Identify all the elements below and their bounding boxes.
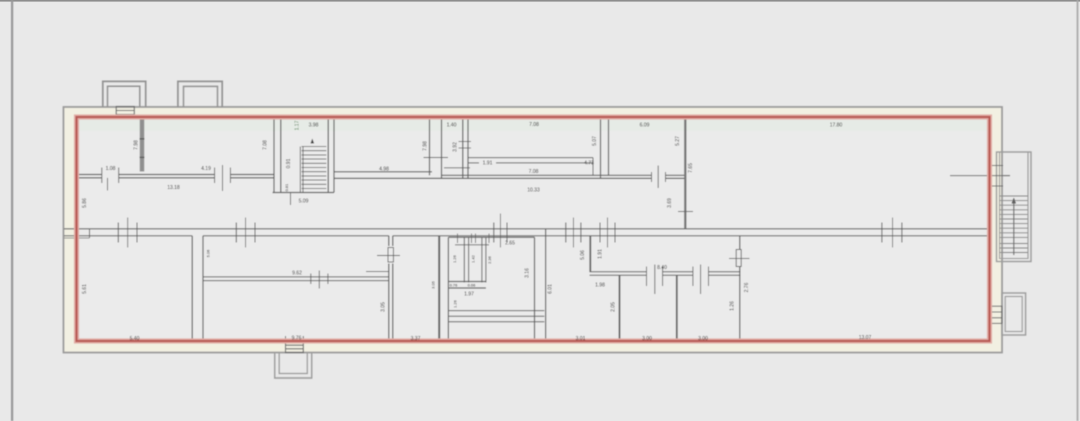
window symbol W5 — [600, 218, 615, 248]
left screen edge line — [11, 0, 13, 421]
stair stringer double line — [300, 147, 303, 193]
door ticks mid south wall — [652, 166, 666, 189]
right external stair up arrow — [1012, 198, 1016, 256]
dimension labels horizontal — [106, 122, 872, 342]
svg-text:7.08: 7.08 — [263, 140, 269, 150]
door 2 ticks on y272 wall — [693, 265, 709, 295]
wall x740 with door gap — [739, 236, 741, 341]
stair door tick below landing — [290, 193, 292, 206]
room 4.98 south line — [334, 171, 432, 173]
small ticks on 462/468 pair top — [459, 142, 472, 149]
svg-text:3.37: 3.37 — [411, 336, 421, 342]
svg-text:3.05: 3.05 — [381, 302, 387, 312]
stair shaft right wall pair — [327, 117, 329, 193]
wall pair x462/468 — [462, 117, 464, 178]
svg-text:0.76: 0.76 — [450, 283, 459, 288]
wall pair x192/203 — [191, 236, 193, 341]
wall horizontal y275 lower — [590, 274, 741, 276]
svg-text:4.19: 4.19 — [201, 166, 211, 172]
door swing tick x740 — [729, 257, 750, 259]
svg-text:7.65: 7.65 — [688, 163, 694, 173]
svg-text:1.26: 1.26 — [730, 301, 736, 311]
svg-text:1.97: 1.97 — [464, 291, 474, 297]
door ticks left block openings — [102, 165, 231, 191]
wall x590 T-stem — [589, 236, 591, 272]
svg-text:9.76: 9.76 — [292, 336, 302, 342]
red overlay halo — [77, 117, 990, 341]
wall pair x600/608 — [600, 117, 602, 178]
right porch outer square — [1002, 293, 1026, 335]
wall x439 — [438, 236, 440, 341]
svg-text:8.40: 8.40 — [657, 265, 667, 271]
top protrusion 1 outer — [103, 81, 146, 107]
svg-text:6.09: 6.09 — [640, 123, 650, 129]
svg-text:2.05: 2.05 — [611, 302, 617, 312]
wall left block south upper line — [77, 174, 274, 176]
svg-text:6.01: 6.01 — [548, 284, 554, 294]
right external stair inner outline — [1000, 152, 1029, 259]
svg-text:5.09: 5.09 — [299, 199, 309, 205]
outer wall outline — [64, 107, 1003, 353]
interior walls — [77, 117, 693, 229]
svg-text:7.98: 7.98 — [423, 141, 429, 151]
top protrusion 2 outer — [178, 81, 222, 107]
svg-text:1.26: 1.26 — [452, 254, 457, 263]
svg-text:3.05: 3.05 — [431, 280, 436, 289]
svg-text:1.08: 1.08 — [106, 166, 116, 172]
window symbol W4 — [566, 218, 581, 248]
mid south wall upper line — [442, 174, 686, 176]
wall x677 — [676, 275, 678, 341]
small marks on room1 divider wall — [140, 138, 145, 140]
wall horizontal y272 upper — [590, 271, 741, 273]
bottom porch U outline outer — [275, 353, 312, 379]
bathroom partition pair 2 — [481, 237, 483, 282]
mid south wall lower line — [334, 177, 686, 179]
corridor north wall line — [64, 228, 990, 230]
svg-text:2.36: 2.36 — [487, 255, 492, 264]
counter lower line — [496, 162, 593, 164]
door tick across 462/468 — [444, 167, 470, 169]
svg-text:1.91: 1.91 — [483, 160, 493, 166]
svg-text:0.91: 0.91 — [286, 158, 292, 168]
wall horizontal y280 lower — [203, 280, 389, 282]
stairs treads interior — [302, 147, 327, 189]
wall pair x389/393 with door gap — [388, 236, 390, 341]
svg-text:5.07: 5.07 — [592, 136, 598, 146]
door lintel segment near wall 389 — [366, 271, 389, 273]
bathroom door ticks top — [455, 234, 489, 245]
mint tint band under top red line — [78, 120, 988, 132]
red overlay rectangle — [77, 117, 990, 341]
svg-text:5.40: 5.40 — [130, 336, 140, 342]
svg-text:3.01: 3.01 — [576, 336, 586, 342]
top protrusion 1 inner — [108, 86, 140, 107]
dimension labels vertical — [82, 120, 750, 311]
svg-text:5.27: 5.27 — [675, 136, 681, 146]
svg-text:7.98: 7.98 — [134, 140, 140, 150]
bathroom block right — [534, 237, 536, 341]
bathroom south band lines — [448, 281, 486, 283]
long wall x685 — [684, 117, 686, 229]
stair up arrow mark — [311, 139, 315, 144]
svg-text:5.61: 5.61 — [82, 284, 88, 294]
corridor south wall line — [64, 235, 990, 237]
svg-text:7.08: 7.08 — [529, 169, 539, 175]
bottom rooms walls — [192, 229, 749, 341]
svg-text:1.17: 1.17 — [295, 120, 301, 130]
svg-text:17.80: 17.80 — [830, 123, 843, 129]
counter lower line left piece — [468, 162, 479, 164]
svg-text:4.98: 4.98 — [379, 167, 389, 173]
right screen edge line — [1077, 0, 1079, 421]
bottom door ticks — [286, 336, 304, 342]
svg-text:0.66: 0.66 — [468, 283, 477, 288]
wall horizontal y277 upper — [203, 276, 389, 278]
left wall window tick — [89, 229, 91, 238]
svg-text:9.62: 9.62 — [292, 271, 302, 277]
svg-text:13.18: 13.18 — [167, 185, 180, 191]
right external stair outer outline — [997, 152, 1032, 262]
window symbol W2 — [236, 218, 255, 248]
shaft triple lines — [448, 310, 544, 312]
right wall door ticks — [950, 166, 1010, 187]
top screen edge line — [0, 0, 1080, 2]
right porch connector hatch — [990, 306, 1002, 323]
door swing tick — [377, 255, 400, 257]
window symbol W3 — [494, 214, 507, 248]
svg-text:13.07: 13.07 — [859, 335, 872, 341]
stair landing line — [273, 192, 335, 194]
bottom porch U outline inner — [279, 353, 307, 374]
door tick across 429/441 — [424, 157, 449, 159]
door 1 ticks on y272 wall — [647, 265, 663, 295]
tick across x685 — [678, 211, 693, 213]
bathroom block left — [447, 237, 449, 341]
svg-text:3.69: 3.69 — [667, 198, 673, 208]
svg-text:1.40: 1.40 — [447, 123, 457, 129]
svg-text:1.42: 1.42 — [471, 254, 476, 263]
building interior fill — [77, 117, 990, 341]
wall x544 — [545, 229, 547, 341]
stair shaft left wall pair — [273, 117, 275, 193]
bathroom block top — [448, 236, 534, 238]
svg-text:4.73: 4.73 — [584, 160, 594, 166]
svg-text:10.33: 10.33 — [527, 188, 540, 194]
door tick on y277 — [311, 271, 328, 289]
svg-text:1.98: 1.98 — [595, 283, 605, 289]
left wall window lower ledge — [64, 237, 90, 239]
right external stair treads — [1000, 196, 1029, 253]
door leaf on x740 wall — [736, 250, 741, 267]
svg-text:3.98: 3.98 — [309, 123, 319, 129]
svg-text:2.76: 2.76 — [744, 282, 750, 292]
svg-text:3.00: 3.00 — [698, 336, 708, 342]
svg-text:3.92: 3.92 — [453, 142, 459, 152]
door leaf on x389 wall — [388, 248, 393, 263]
wall left block south lower line — [77, 177, 274, 179]
svg-text:2.65: 2.65 — [505, 241, 515, 247]
svg-text:5.06: 5.06 — [580, 250, 586, 260]
svg-text:5.06: 5.06 — [206, 249, 211, 258]
svg-text:7.08: 7.08 — [529, 122, 539, 128]
svg-text:1.91: 1.91 — [597, 249, 603, 259]
counter right end vertical — [592, 158, 594, 176]
svg-text:1.26: 1.26 — [453, 299, 458, 308]
svg-text:0.81: 0.81 — [284, 183, 289, 192]
wall x619 — [619, 275, 621, 341]
building perimeter cream fill — [64, 107, 1003, 353]
bathroom partition pair 1 — [463, 237, 465, 282]
hatched vent box under protrusion 1 — [116, 107, 134, 118]
window symbol W1 — [118, 218, 137, 248]
wall vertical room1 divider — [140, 118, 145, 172]
svg-text:3.16: 3.16 — [525, 268, 531, 278]
counter upper line — [468, 157, 593, 159]
svg-text:5.86: 5.86 — [82, 198, 88, 208]
right porch inner square — [1005, 297, 1022, 332]
top protrusion 2 inner — [184, 86, 218, 107]
svg-text:3.00: 3.00 — [642, 336, 652, 342]
wall pair x429/441 — [429, 117, 431, 175]
window symbol W6 — [882, 218, 902, 248]
bottom entry step hatch — [286, 342, 304, 353]
